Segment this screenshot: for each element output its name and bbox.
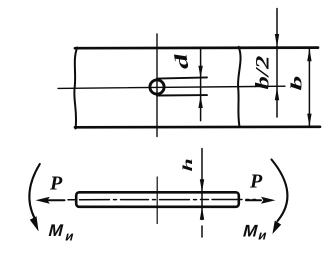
vertical centerline — [156, 34, 158, 137]
moment arc left — [29, 164, 39, 218]
hole tangent line top — [157, 77, 207, 78]
left break line — [74, 48, 77, 129]
moment arc right — [272, 160, 288, 222]
plate top edge — [75, 46, 318, 49]
plate bottom edge — [75, 125, 320, 128]
force P left arrow — [47, 199, 65, 201]
force P right arrow — [246, 199, 261, 201]
right break line — [238, 47, 241, 126]
dimension line b/2 — [276, 9, 278, 118]
svg-text:P: P — [49, 173, 63, 195]
bar axis dash-dot line — [68, 199, 256, 201]
svg-text:d: d — [170, 51, 192, 71]
hole — [150, 80, 164, 94]
horizontal centerline — [58, 86, 285, 88]
dimension line d — [200, 49, 202, 121]
svg-text:b: b — [288, 76, 305, 91]
dimension line h — [201, 149, 203, 220]
hole tangent line bottom — [157, 94, 207, 96]
svg-text:b/2: b/2 — [251, 55, 272, 89]
svg-text:h: h — [181, 158, 196, 171]
svg-text:и: и — [257, 228, 269, 243]
bar outline (side view) — [76, 192, 239, 207]
svg-text:P: P — [249, 171, 263, 193]
dimension line b — [308, 49, 310, 127]
svg-text:и: и — [64, 229, 76, 244]
svg-text:М: М — [47, 220, 66, 240]
vertical centerline (side view) — [156, 177, 158, 224]
